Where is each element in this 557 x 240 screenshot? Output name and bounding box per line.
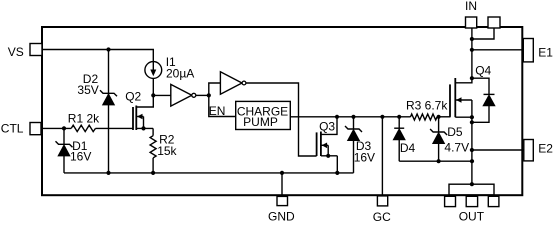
- OUT bond pad bar: [449, 184, 494, 195]
- node inverter1 output: [207, 93, 211, 97]
- wire D2 branch: [108, 50, 110, 94]
- node CTL/D1 junction: [62, 126, 66, 130]
- node Q3 drain / rail: [335, 115, 339, 119]
- bottom rail: [64, 172, 354, 174]
- gate drive rail from charge pump: [290, 116, 410, 118]
- pin GND: [268, 196, 295, 223]
- node E2 tap: [470, 148, 474, 152]
- wire Q4 source to OUT pad: [471, 117, 473, 184]
- pin OUT (three pads): [445, 196, 499, 223]
- svg-text:4.7V: 4.7V: [444, 141, 469, 155]
- svg-text:Q3: Q3: [319, 120, 335, 134]
- pin GC: [373, 196, 391, 224]
- wire to E1: [470, 48, 474, 52]
- svg-text:E2: E2: [538, 142, 553, 156]
- diode D4: [393, 115, 415, 161]
- transistor Q4: [450, 64, 492, 120]
- node R2/rail: [151, 171, 155, 175]
- svg-text:16V: 16V: [70, 149, 91, 163]
- node anode line / OUT vertical: [470, 159, 474, 163]
- resistor R2 15k: [150, 133, 177, 158]
- transistor Q3: [317, 117, 340, 175]
- pin VS: [8, 44, 42, 60]
- pin CTL: [1, 122, 41, 136]
- wire CTL line with R1: [43, 127, 71, 129]
- node D2/rail: [106, 171, 110, 175]
- svg-text:15k: 15k: [157, 144, 177, 158]
- node GND tap: [280, 171, 284, 175]
- zener D5 4.7V: [430, 115, 469, 161]
- svg-text:D5: D5: [447, 125, 463, 139]
- node Q2 drain / inverter input: [151, 93, 155, 97]
- inverter U2: [209, 72, 246, 96]
- node OUT pad: [470, 182, 474, 186]
- svg-text:D4: D4: [400, 141, 416, 155]
- wire EN input: [209, 95, 236, 116]
- wire IN pins into box: [470, 28, 494, 78]
- pin E2: [524, 140, 554, 161]
- resistor R3 6.7k: [406, 98, 448, 120]
- node VS/D2 junction: [106, 47, 110, 51]
- wire to E2: [472, 149, 524, 151]
- pin E1: [523, 39, 553, 62]
- wire inverter1 out: [196, 94, 209, 96]
- svg-text:IN: IN: [465, 0, 477, 13]
- wire GC tap: [380, 115, 384, 119]
- svg-text:20µA: 20µA: [166, 66, 194, 80]
- wire Q2 source down to R2: [152, 128, 154, 135]
- svg-text:Q4: Q4: [475, 64, 491, 78]
- svg-text:35V: 35V: [77, 83, 98, 97]
- wire I1 to node: [152, 78, 154, 95]
- zener D3 16V: [345, 115, 375, 173]
- svg-text:GND: GND: [268, 210, 295, 224]
- svg-text:GC: GC: [373, 210, 391, 224]
- zener D1 16V: [56, 128, 92, 173]
- charge pump block: [236, 101, 291, 129]
- wire GND tap: [281, 173, 283, 195]
- zener D2 35V: [77, 72, 117, 105]
- current source I1 20uA: [145, 55, 194, 81]
- wire inverter2 out to Q3 gate: [246, 83, 317, 156]
- resistor R1 2k: [68, 112, 100, 132]
- svg-text:E1: E1: [538, 46, 553, 60]
- pin IN (two pads): [465, 0, 500, 28]
- svg-text:VS: VS: [8, 45, 24, 59]
- inverter U1: [153, 84, 196, 106]
- wire R2 to bottom rail: [152, 158, 154, 173]
- svg-text:PUMP: PUMP: [243, 115, 278, 129]
- diode Q4 body: [470, 78, 495, 124]
- svg-text:R1 2k: R1 2k: [68, 112, 100, 126]
- transistor Q2: [125, 90, 153, 131]
- svg-text:CTL: CTL: [1, 122, 24, 136]
- svg-text:OUT: OUT: [459, 209, 485, 223]
- svg-text:16V: 16V: [354, 151, 375, 165]
- IC outline box: [42, 27, 522, 195]
- svg-text:Q2: Q2: [125, 90, 141, 104]
- svg-text:EN: EN: [209, 104, 226, 118]
- node D5/anode line: [437, 159, 441, 163]
- wire VS rail: [43, 50, 153, 62]
- wire D4/D5 anode line to OUT: [399, 160, 472, 162]
- svg-text:R3 6.7k: R3 6.7k: [406, 98, 448, 112]
